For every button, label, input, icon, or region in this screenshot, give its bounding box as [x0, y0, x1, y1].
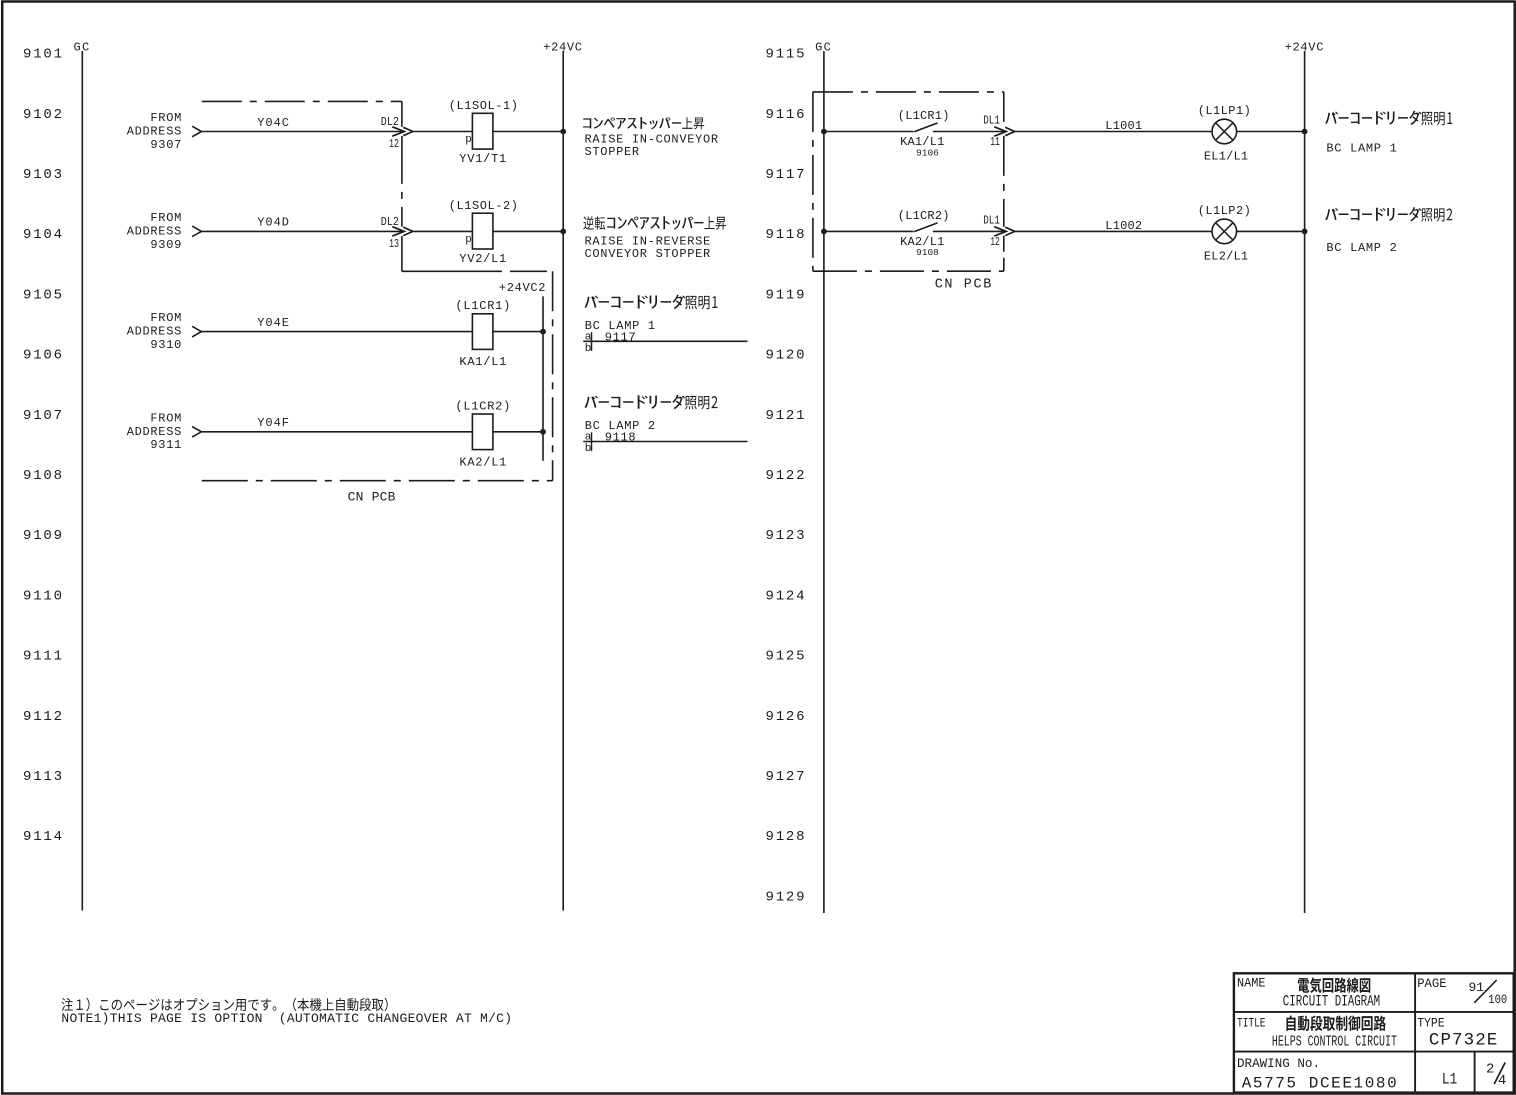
svg-text:L1001: L1001: [1105, 119, 1142, 133]
svg-text:A5775 DCEE1080: A5775 DCEE1080: [1242, 1075, 1397, 1093]
svg-text:9123: 9123: [766, 528, 807, 544]
svg-text:9120: 9120: [766, 348, 807, 364]
svg-text:9108: 9108: [23, 468, 64, 484]
svg-text:(L1LP1): (L1LP1): [1198, 104, 1252, 118]
svg-text:FROM: FROM: [150, 111, 182, 125]
svg-text:ADDRESS: ADDRESS: [127, 125, 182, 139]
svg-text:YV2/L1: YV2/L1: [459, 252, 507, 266]
svg-text:DL1: DL1: [983, 114, 1000, 128]
svg-text:BC LAMP 1: BC LAMP 1: [1326, 141, 1397, 155]
svg-text:FROM: FROM: [150, 411, 182, 425]
svg-text:FROM: FROM: [150, 311, 182, 325]
svg-text:100: 100: [1488, 992, 1507, 1007]
svg-text:HELPS CONTROL CIRCUIT: HELPS CONTROL CIRCUIT: [1272, 1034, 1397, 1051]
svg-text:(L1CR1): (L1CR1): [455, 299, 511, 313]
svg-text:9111: 9111: [23, 649, 64, 665]
svg-text:PAGE: PAGE: [1417, 976, 1447, 991]
svg-text:9108: 9108: [916, 247, 939, 258]
svg-text:9116: 9116: [766, 107, 807, 123]
svg-text:ADDRESS: ADDRESS: [127, 224, 182, 238]
svg-text:a: a: [585, 432, 592, 444]
svg-text:CN PCB: CN PCB: [348, 490, 396, 505]
svg-text:9114: 9114: [23, 829, 64, 845]
svg-text:TITLE: TITLE: [1237, 1015, 1266, 1030]
svg-text:12: 12: [990, 235, 1000, 249]
svg-text:EL1/L1: EL1/L1: [1204, 150, 1248, 164]
svg-text:(L1CR1): (L1CR1): [898, 109, 950, 123]
svg-text:9311: 9311: [150, 438, 182, 452]
svg-text:CIRCUIT DIAGRAM: CIRCUIT DIAGRAM: [1283, 993, 1381, 1011]
svg-text:NAME: NAME: [1237, 975, 1266, 990]
svg-text:4: 4: [1498, 1073, 1506, 1089]
svg-text:BC LAMP 2: BC LAMP 2: [585, 419, 656, 433]
svg-text:9310: 9310: [150, 338, 182, 352]
svg-text:STOPPER: STOPPER: [585, 145, 640, 159]
svg-text:TYPE: TYPE: [1417, 1015, 1445, 1030]
svg-text:(L1LP2): (L1LP2): [1198, 204, 1252, 218]
svg-text:EL2/L1: EL2/L1: [1204, 249, 1248, 263]
svg-text:9124: 9124: [766, 588, 807, 604]
svg-text:9118: 9118: [766, 227, 807, 243]
svg-text:CONVEYOR STOPPER: CONVEYOR STOPPER: [585, 247, 711, 261]
svg-text:9104: 9104: [23, 227, 64, 243]
svg-text:9126: 9126: [766, 709, 807, 725]
svg-text:9307: 9307: [150, 138, 182, 152]
svg-text:+24VC: +24VC: [543, 40, 583, 54]
svg-text:9113: 9113: [23, 769, 64, 785]
svg-text:p: p: [465, 134, 472, 146]
svg-text:YV1/T1: YV1/T1: [459, 152, 507, 166]
svg-text:9105: 9105: [23, 287, 64, 303]
svg-text:GC: GC: [815, 40, 832, 54]
svg-text:CP732E: CP732E: [1429, 1031, 1497, 1051]
svg-text:11: 11: [990, 135, 1000, 149]
svg-text:ADDRESS: ADDRESS: [127, 325, 182, 339]
svg-text:9119: 9119: [766, 287, 807, 303]
svg-text:9129: 9129: [766, 889, 807, 905]
svg-text:Y04C: Y04C: [257, 116, 290, 130]
svg-text:12: 12: [389, 137, 399, 151]
svg-text:9115: 9115: [766, 47, 807, 63]
svg-text:9106: 9106: [916, 147, 939, 158]
svg-text:2: 2: [1486, 1061, 1494, 1077]
svg-text:9109: 9109: [23, 528, 64, 544]
svg-text:9103: 9103: [23, 167, 64, 183]
svg-text:9101: 9101: [23, 47, 64, 63]
svg-text:+24VC: +24VC: [1285, 40, 1325, 54]
svg-text:KA1/L1: KA1/L1: [459, 355, 507, 369]
svg-text:9127: 9127: [766, 769, 807, 785]
svg-text:FROM: FROM: [150, 211, 182, 225]
svg-text:(L1SOL-2): (L1SOL-2): [449, 199, 519, 213]
svg-text:9102: 9102: [23, 107, 64, 123]
svg-text:91: 91: [1469, 980, 1485, 995]
svg-text:Y04F: Y04F: [257, 416, 290, 430]
svg-text:9112: 9112: [23, 709, 64, 725]
svg-text:a: a: [585, 331, 592, 343]
svg-text:9110: 9110: [23, 588, 64, 604]
svg-text:Y04E: Y04E: [257, 316, 290, 330]
svg-text:b: b: [585, 343, 592, 355]
svg-text:+24VC2: +24VC2: [499, 281, 546, 295]
svg-text:GC: GC: [74, 40, 91, 54]
svg-text:p: p: [465, 234, 472, 246]
svg-text:DL2: DL2: [381, 115, 399, 129]
svg-text:BC LAMP 2: BC LAMP 2: [1326, 241, 1397, 255]
svg-text:L1: L1: [1442, 1071, 1458, 1089]
svg-text:(L1SOL-1): (L1SOL-1): [449, 99, 519, 113]
svg-text:9309: 9309: [150, 238, 182, 252]
svg-text:9125: 9125: [766, 649, 807, 665]
svg-text:9122: 9122: [766, 468, 807, 484]
svg-text:ADDRESS: ADDRESS: [127, 425, 182, 439]
svg-text:Y04D: Y04D: [257, 216, 290, 230]
svg-text:(L1CR2): (L1CR2): [455, 399, 511, 413]
svg-text:9106: 9106: [23, 348, 64, 364]
svg-text:9117: 9117: [766, 167, 807, 183]
svg-text:DL1: DL1: [983, 213, 1000, 227]
svg-text:DL2: DL2: [381, 215, 399, 229]
svg-text:9128: 9128: [766, 829, 807, 845]
svg-text:KA2/L1: KA2/L1: [459, 455, 507, 469]
svg-text:NOTE1)THIS PAGE IS OPTION (AU: NOTE1)THIS PAGE IS OPTION (AUTOMATIC CHA…: [61, 1011, 512, 1026]
svg-text:L1002: L1002: [1105, 219, 1142, 233]
svg-text:b: b: [585, 443, 592, 455]
svg-text:13: 13: [389, 237, 399, 251]
svg-text:9121: 9121: [766, 408, 807, 424]
svg-text:CN PCB: CN PCB: [935, 278, 993, 293]
svg-text:(L1CR2): (L1CR2): [898, 209, 950, 223]
svg-text:DRAWING No.: DRAWING No.: [1237, 1056, 1320, 1071]
svg-text:9107: 9107: [23, 408, 64, 424]
svg-text:BC LAMP 1: BC LAMP 1: [585, 319, 656, 333]
